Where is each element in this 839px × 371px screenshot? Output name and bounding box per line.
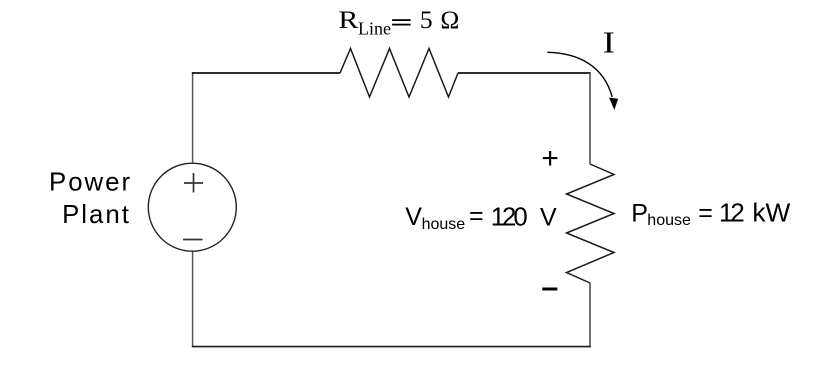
- label V_house = 120 V: [405, 202, 557, 233]
- - polarity mark at house load: [542, 288, 557, 291]
- svg-text:+: +: [541, 142, 559, 175]
- wire: top horizontal right segment: [458, 72, 591, 74]
- wire: top-left vertical (corner down to source top): [192, 73, 194, 165]
- svg-text:Line: Line: [358, 18, 391, 38]
- svg-text:=: =: [698, 199, 713, 227]
- svg-text:R: R: [338, 6, 358, 34]
- wire: bottom horizontal: [192, 346, 591, 348]
- svg-text:Power: Power: [49, 169, 132, 197]
- wire: right vertical upper (corner to load): [589, 72, 591, 164]
- svg-text:P: P: [631, 200, 648, 228]
- svg-text:house: house: [422, 216, 466, 233]
- svg-text:Plant: Plant: [62, 201, 131, 229]
- wire: right vertical lower (load to corner): [589, 283, 591, 347]
- label Power Plant: [49, 169, 132, 230]
- svg-text:120: 120: [491, 204, 528, 232]
- wire: top horizontal left segment: [192, 72, 340, 74]
- svg-text:house: house: [647, 212, 691, 229]
- label P_house = 12 kW: [631, 198, 790, 230]
- - terminal mark inside source: [183, 239, 203, 241]
- voltage source V1 (Power Plant): [148, 163, 236, 251]
- current arrow I (curved): [547, 52, 612, 97]
- svg-text:V: V: [405, 203, 422, 231]
- resistor P_house load (vertical zigzag): [567, 164, 615, 283]
- resistor R_Line (horizontal zigzag): [340, 49, 458, 98]
- label R_Line = 5 Ohm: [338, 5, 459, 39]
- svg-text:=: =: [469, 202, 484, 230]
- svg-text:kW: kW: [752, 198, 790, 228]
- svg-text:5: 5: [420, 5, 433, 34]
- wire: left vertical below source: [192, 250, 194, 347]
- svg-text:V: V: [540, 204, 557, 232]
- svg-text:I: I: [603, 25, 615, 59]
- svg-text:12: 12: [719, 200, 744, 228]
- current arrowhead: [610, 98, 617, 108]
- svg-text:Ω: Ω: [440, 5, 459, 34]
- + terminal mark inside source: [184, 173, 203, 193]
